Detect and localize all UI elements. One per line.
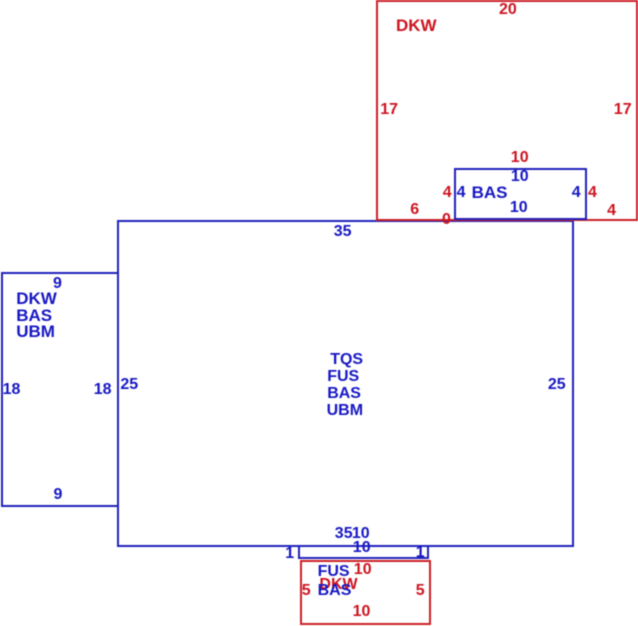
- label BAS name big: [327, 385, 361, 403]
- label 20 top of red DKW region: [499, 1, 517, 19]
- label 4 blue right in BAS region: [572, 184, 581, 202]
- label 4 red left of BAS region: [443, 184, 452, 202]
- label UBM name big: [327, 402, 363, 420]
- label DKW name left region: [16, 290, 57, 308]
- label DKW name bottom red region: [319, 576, 357, 594]
- label 10 above bottom blue region: [352, 525, 370, 543]
- label 10 bottom inside bottom red region: [353, 603, 371, 621]
- label 6 bottom of red DKW region: [410, 201, 419, 219]
- label 10 above BAS region: [511, 149, 529, 167]
- label 4 red bottom-right of red DKW region: [607, 202, 616, 220]
- region BAS (top, blue): [454, 168, 587, 221]
- label 10 bottom inside BAS region: [510, 199, 528, 217]
- region FUS/BAS (bottom, blue): [298, 545, 429, 559]
- label 10 inside bottom blue region: [353, 539, 371, 557]
- label 17 right of red DKW region: [614, 101, 632, 119]
- label 18 right of left region: [94, 381, 112, 399]
- label UBM name left region: [16, 323, 55, 341]
- label 18 left of left region: [3, 381, 21, 399]
- label 35 bottom of big region: [335, 525, 353, 543]
- label 25 left of big region: [120, 376, 138, 394]
- label 5 left in bottom red region: [302, 582, 311, 600]
- label BAS name: [472, 184, 508, 202]
- region TQS/FUS/BAS/UBM (big, blue): [117, 220, 574, 548]
- label 10 top inside BAS region: [511, 168, 529, 186]
- label 9 bottom of left region: [54, 486, 63, 504]
- label TQS name: [330, 351, 363, 369]
- label 10 top inside bottom red region: [354, 561, 372, 579]
- region DKW (top-right, red): [376, 0, 638, 221]
- label 4 blue left in BAS region: [457, 184, 466, 202]
- region DKW (bottom, red): [300, 560, 431, 625]
- label 4 red right of BAS region: [588, 184, 597, 202]
- label 1 left of bottom blue region: [285, 545, 294, 563]
- label BAS name bottom: [318, 582, 352, 600]
- label FUS name: [327, 368, 359, 386]
- label FUS name bottom: [318, 563, 350, 581]
- region DKW/BAS/UBM (left, blue): [1, 272, 119, 507]
- label 0 bottom of red DKW region: [442, 211, 451, 229]
- label 25 right of big region: [548, 376, 566, 394]
- label 35 top of big region: [334, 223, 352, 241]
- label 9 top of left region: [53, 275, 62, 293]
- label 17 left of red DKW region: [380, 101, 398, 119]
- label 1 right in bottom blue region: [416, 544, 425, 562]
- label 5 right in bottom red region: [416, 582, 425, 600]
- label BAS name left region: [16, 307, 52, 325]
- label DKW name of top red region: [396, 17, 437, 35]
